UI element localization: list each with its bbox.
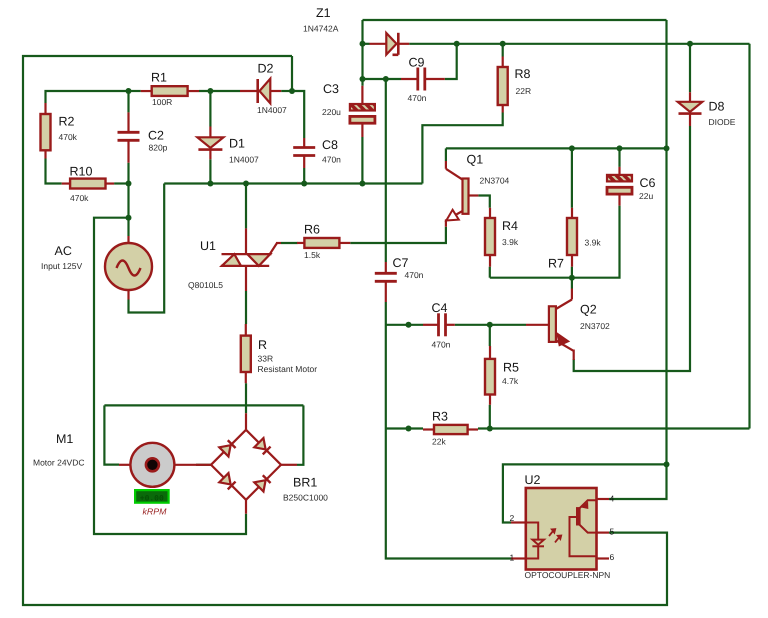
- label R4: [502, 219, 518, 233]
- svg-text:R8: R8: [515, 67, 531, 81]
- svg-text:470k: 470k: [70, 193, 89, 203]
- value label 2N3702: [580, 321, 610, 331]
- svg-text:AC: AC: [55, 244, 72, 258]
- svg-text:22u: 22u: [639, 191, 653, 201]
- value label 4.7k: [502, 376, 519, 386]
- svg-text:C7: C7: [393, 256, 409, 270]
- capacitor C9: [401, 68, 445, 91]
- pin number 4: [610, 494, 615, 504]
- motor M1: [119, 443, 196, 487]
- pin number 6: [610, 552, 615, 562]
- wire R3 branch: [386, 427, 423, 429]
- node R7 top: [569, 145, 575, 151]
- svg-text:Q2: Q2: [580, 303, 597, 317]
- wire motor loop left: [104, 405, 119, 464]
- wire Z1 left stub: [363, 43, 370, 45]
- U2 light arrows: [549, 529, 561, 542]
- value label DIODE: [709, 117, 736, 127]
- node U1 MT2: [243, 181, 249, 187]
- wire top border drop to D2 node: [291, 56, 293, 91]
- diode D1 (1N4007): [197, 127, 223, 160]
- svg-text:3.9k: 3.9k: [502, 237, 519, 247]
- node C3 top: [360, 76, 366, 82]
- wire top rail y=20: [363, 19, 667, 21]
- wire C9 rail y=79: [363, 78, 402, 80]
- pin number 5: [610, 527, 615, 537]
- motor M1 rpm display: [135, 490, 169, 503]
- wire U1 MT1 to R: [245, 291, 247, 324]
- label U2: [525, 473, 541, 487]
- label R: [258, 338, 267, 352]
- wire C3/C9 node vertical: [361, 44, 363, 86]
- bridge diode upper-left: [219, 440, 236, 457]
- value label 1N4742A: [303, 24, 339, 34]
- capacitor C8: [293, 138, 315, 168]
- label M1: [56, 432, 73, 446]
- wire D2 right lead to node: [281, 90, 292, 92]
- bridge diode upper-right: [254, 438, 271, 455]
- value label 470k: [70, 193, 89, 203]
- node R7/Q2: [569, 275, 575, 281]
- wire Z1 output rail y=43.8: [409, 43, 749, 45]
- value label OPTOCOUPLER-NPN: [525, 570, 611, 580]
- resistor R3: [423, 425, 478, 434]
- wire U1 MT2 from main rail: [245, 184, 247, 229]
- value label 470n: [405, 270, 424, 280]
- label R1: [151, 71, 167, 85]
- wire motor right lead: [196, 464, 211, 466]
- bridge diode lower-left: [219, 473, 236, 490]
- svg-text:1.5k: 1.5k: [304, 250, 321, 260]
- wire Q1 rail y=148.4: [446, 147, 667, 149]
- capacitor C6 (polarized): [607, 167, 632, 206]
- label C2: [148, 129, 164, 143]
- svg-text:C6: C6: [640, 176, 656, 190]
- svg-text:5: 5: [610, 527, 615, 537]
- wire bridge top lead: [245, 383, 247, 413]
- transistor Q1 (2N3704): [446, 161, 479, 227]
- svg-text:R6: R6: [304, 223, 320, 237]
- node R1-left/C2: [126, 88, 132, 94]
- node C7 rail top: [383, 76, 389, 82]
- svg-text:OPTOCOUPLER-NPN: OPTOCOUPLER-NPN: [525, 570, 611, 580]
- wire R10 right to C2 node: [114, 182, 128, 184]
- wire Q1 base to R4: [478, 196, 489, 208]
- svg-text:1N4742A: 1N4742A: [303, 24, 339, 34]
- value label 1.5k: [304, 250, 321, 260]
- svg-text:3.9k: 3.9k: [585, 238, 602, 248]
- bridge rectifier BR1 frame: [196, 413, 297, 514]
- wire C7 vertical rail upper: [385, 79, 387, 262]
- node D1 bottom: [207, 181, 213, 187]
- label Q1: [467, 153, 484, 167]
- svg-text:100R: 100R: [152, 97, 172, 107]
- wire C6 top: [618, 148, 620, 167]
- U2 pin 4 stub: [597, 498, 610, 500]
- wire C4 branch: [386, 324, 423, 326]
- wire main rail left drop to AC-: [129, 184, 165, 313]
- wire U1 gate to R6: [281, 242, 298, 244]
- resistor R2: [41, 103, 51, 159]
- svg-text:C8: C8: [322, 138, 338, 152]
- value label 2N3704: [480, 176, 510, 186]
- wire C9 right riser: [445, 44, 457, 79]
- node Z1/C3: [360, 41, 366, 47]
- wire R1 node left segment: [46, 91, 129, 103]
- node C8 bottom: [301, 181, 307, 187]
- node D2/border: [289, 88, 295, 94]
- node U2 pin2/pin4: [664, 461, 670, 467]
- svg-text:D2: D2: [258, 62, 274, 76]
- pin number 1: [510, 553, 515, 563]
- svg-text:220u: 220u: [322, 107, 341, 117]
- svg-text:Resistant Motor: Resistant Motor: [258, 364, 318, 374]
- svg-text:C2: C2: [148, 129, 164, 143]
- value label Q8010L5: [188, 280, 223, 290]
- U2 pin 6 stub: [597, 557, 610, 559]
- label D8: [709, 100, 725, 114]
- label kRPM: [143, 507, 168, 517]
- node Q1 rail/right vertical: [664, 145, 670, 151]
- label R10: [70, 165, 93, 179]
- label C4: [432, 301, 448, 315]
- svg-text:Z1: Z1: [316, 6, 331, 20]
- wire main rail jog to R8: [422, 113, 502, 184]
- svg-text:470n: 470n: [432, 340, 451, 350]
- pin number 2: [510, 513, 515, 523]
- wire right vertical x=666.5: [665, 20, 667, 464]
- svg-text:C3: C3: [323, 82, 339, 96]
- wire C2 bottom vertical: [127, 163, 129, 184]
- value label 1N4007: [257, 105, 287, 115]
- wire R3 right to right drop: [478, 427, 750, 429]
- label C6: [640, 176, 656, 190]
- node C4 branch: [406, 322, 412, 328]
- svg-text:470n: 470n: [405, 270, 424, 280]
- label C9: [409, 56, 425, 70]
- wire outer border net (U2 pin5 loop): [23, 56, 667, 605]
- svg-text:470k: 470k: [59, 132, 78, 142]
- node C4/R5/Q2 base: [487, 322, 493, 328]
- svg-text:1: 1: [510, 553, 515, 563]
- svg-text:R1: R1: [151, 71, 167, 85]
- wire C8 top hook: [292, 91, 304, 138]
- svg-text:C4: C4: [432, 301, 448, 315]
- wire Q2 collector from node: [571, 278, 573, 289]
- svg-text:B250C1000: B250C1000: [283, 493, 328, 503]
- wire C2 top vertical: [127, 91, 129, 112]
- wire motor loop top: [104, 404, 303, 406]
- svg-text:U2: U2: [525, 473, 541, 487]
- value label 470n: [322, 155, 341, 165]
- node R1-right/D1/D2: [207, 88, 213, 94]
- diode D8: [678, 92, 703, 126]
- svg-text:DIODE: DIODE: [709, 117, 736, 127]
- value label 22u: [639, 191, 653, 201]
- U2 pin 2 stub: [511, 521, 526, 523]
- capacitor C2: [118, 112, 140, 162]
- label D1: [229, 137, 245, 151]
- U2 pin 1 stub: [511, 557, 526, 559]
- label Q2: [580, 303, 597, 317]
- zener diode Z1 (1N4742A): [370, 33, 410, 55]
- bridge diode lower-right: [254, 475, 271, 492]
- svg-text:820p: 820p: [149, 143, 168, 153]
- wire Q2 emitter to D8 bottom: [574, 126, 690, 371]
- wire C2 node down to AC+: [127, 184, 129, 237]
- value label 100R: [152, 97, 172, 107]
- svg-text:1N4007: 1N4007: [257, 105, 287, 115]
- node R5/R3: [487, 426, 493, 432]
- resistor R5: [485, 346, 495, 405]
- wire U2 pin2 path: [503, 464, 667, 522]
- value label 470n: [408, 93, 427, 103]
- value label B250C1000: [283, 493, 328, 503]
- capacitor C3 (polarized): [350, 86, 375, 137]
- svg-text:6: 6: [610, 552, 615, 562]
- value label 3.9k: [585, 238, 602, 248]
- label C3: [323, 82, 339, 96]
- wire zener-node vertical: [361, 20, 363, 44]
- label R5: [503, 361, 519, 375]
- resistor R8: [498, 57, 508, 113]
- label R3: [432, 410, 448, 424]
- capacitor C7: [375, 262, 397, 302]
- wire R7 top: [571, 148, 573, 207]
- node C6 top: [617, 145, 623, 151]
- wire R5 bottom: [489, 405, 491, 429]
- svg-text:2: 2: [510, 513, 515, 523]
- svg-text:2N3702: 2N3702: [580, 321, 610, 331]
- value label Resistant Motor: [258, 364, 318, 374]
- value label 33R: [258, 354, 274, 364]
- svg-text:C9: C9: [409, 56, 425, 70]
- capacitor C4: [423, 313, 455, 336]
- wire R1 left stub: [129, 90, 141, 92]
- svg-text:2N3704: 2N3704: [480, 176, 510, 186]
- U2 phototransistor: [570, 500, 597, 556]
- wire R8 top: [502, 44, 504, 57]
- label C8: [322, 138, 338, 152]
- value label 470n: [432, 340, 451, 350]
- svg-text:4: 4: [610, 494, 615, 504]
- wire AC+ tee to left rail: [94, 218, 246, 534]
- svg-text:R2: R2: [59, 115, 75, 129]
- wire C4 to Q2 base node: [455, 324, 526, 326]
- wire main lower rail y=183.5: [164, 182, 422, 184]
- resistor R10: [62, 179, 114, 189]
- diode D2 (1N4007): [240, 79, 281, 104]
- svg-text:R10: R10: [70, 165, 93, 179]
- wire right drop x=749.5: [748, 44, 750, 429]
- label AC: [55, 244, 72, 258]
- svg-text:R7: R7: [548, 257, 564, 271]
- svg-text:R: R: [258, 338, 267, 352]
- svg-text:kRPM: kRPM: [143, 507, 168, 517]
- value label 820p: [149, 143, 168, 153]
- svg-text:22k: 22k: [432, 437, 446, 447]
- wire R7 bottom: [571, 267, 573, 278]
- svg-text:1N4007: 1N4007: [229, 155, 259, 165]
- value label 22R: [516, 86, 532, 96]
- svg-text:33R: 33R: [258, 354, 274, 364]
- label BR1: [293, 476, 317, 490]
- svg-text:Motor 24VDC: Motor 24VDC: [33, 458, 85, 468]
- resistor R (33R): [241, 324, 251, 383]
- svg-text:D8: D8: [709, 100, 725, 114]
- wire C8 bottom: [303, 168, 305, 184]
- value label Motor 24VDC: [33, 458, 85, 468]
- svg-text:470n: 470n: [408, 93, 427, 103]
- node C3 bottom: [359, 181, 365, 187]
- label C7: [393, 256, 409, 270]
- svg-text:+0.00: +0.00: [140, 495, 164, 504]
- triac U1 (Q8010L5): [221, 228, 281, 291]
- wire D1 top vertical: [209, 91, 211, 127]
- label R8: [515, 67, 531, 81]
- svg-text:R5: R5: [503, 361, 519, 375]
- AC source (alternator): [105, 236, 152, 300]
- node R8 top: [500, 41, 506, 47]
- wire U2 pin4 path: [609, 464, 667, 499]
- node C9 riser: [454, 41, 460, 47]
- node R3 branch: [406, 426, 412, 432]
- resistor R7: [567, 208, 577, 267]
- svg-text:R4: R4: [502, 219, 518, 233]
- svg-text:22R: 22R: [516, 86, 532, 96]
- svg-text:Q8010L5: Q8010L5: [188, 280, 223, 290]
- svg-text:R3: R3: [432, 410, 448, 424]
- wire R4/R7/C6 bottom rail: [490, 206, 620, 278]
- resistor R4: [485, 208, 495, 267]
- label R7: [548, 257, 564, 271]
- U2 pin 5 stub: [597, 531, 610, 533]
- wire D8 top: [689, 44, 691, 92]
- resistor R1: [141, 86, 199, 96]
- wire Q1 collector drop: [445, 148, 447, 161]
- svg-text:U1: U1: [200, 239, 216, 253]
- node AC+ tee: [126, 215, 132, 221]
- label R6: [304, 223, 320, 237]
- label R2: [59, 115, 75, 129]
- wire R4 bottom: [489, 267, 491, 278]
- wire C7 vertical rail lower / U2 pin1: [386, 302, 511, 559]
- optocoupler U2 body: [526, 488, 597, 570]
- label U1: [200, 239, 216, 253]
- svg-text:D1: D1: [229, 137, 245, 151]
- wire R1 right to D2: [199, 90, 240, 92]
- svg-text:M1: M1: [56, 432, 73, 446]
- svg-text:Input 125V: Input 125V: [41, 261, 82, 271]
- wire D1 bottom vertical: [209, 159, 211, 183]
- value label 220u: [322, 107, 341, 117]
- wire C3 bottom: [361, 137, 363, 184]
- wire R6 right to Q1 emitter: [350, 227, 446, 243]
- svg-text:Q1: Q1: [467, 153, 484, 167]
- node R10/C2 bottom: [126, 181, 132, 187]
- value label 1N4007: [229, 155, 259, 165]
- transistor Q2 (2N3702): [526, 289, 574, 361]
- value label Input 125V: [41, 261, 82, 271]
- value label 22k: [432, 437, 446, 447]
- value label 470k: [59, 132, 78, 142]
- svg-text:4.7k: 4.7k: [502, 376, 519, 386]
- wire R5 top: [489, 325, 491, 346]
- label Z1: [316, 6, 331, 20]
- svg-text:470n: 470n: [322, 155, 341, 165]
- wire R2 bottom to R10: [46, 159, 62, 184]
- wire motor loop right: [297, 405, 303, 464]
- label D2: [258, 62, 274, 76]
- svg-text:BR1: BR1: [293, 476, 317, 490]
- node D8 top: [687, 41, 693, 47]
- resistor R6: [297, 238, 350, 248]
- value label 3.9k: [502, 237, 519, 247]
- U2 internal LED: [526, 523, 544, 559]
